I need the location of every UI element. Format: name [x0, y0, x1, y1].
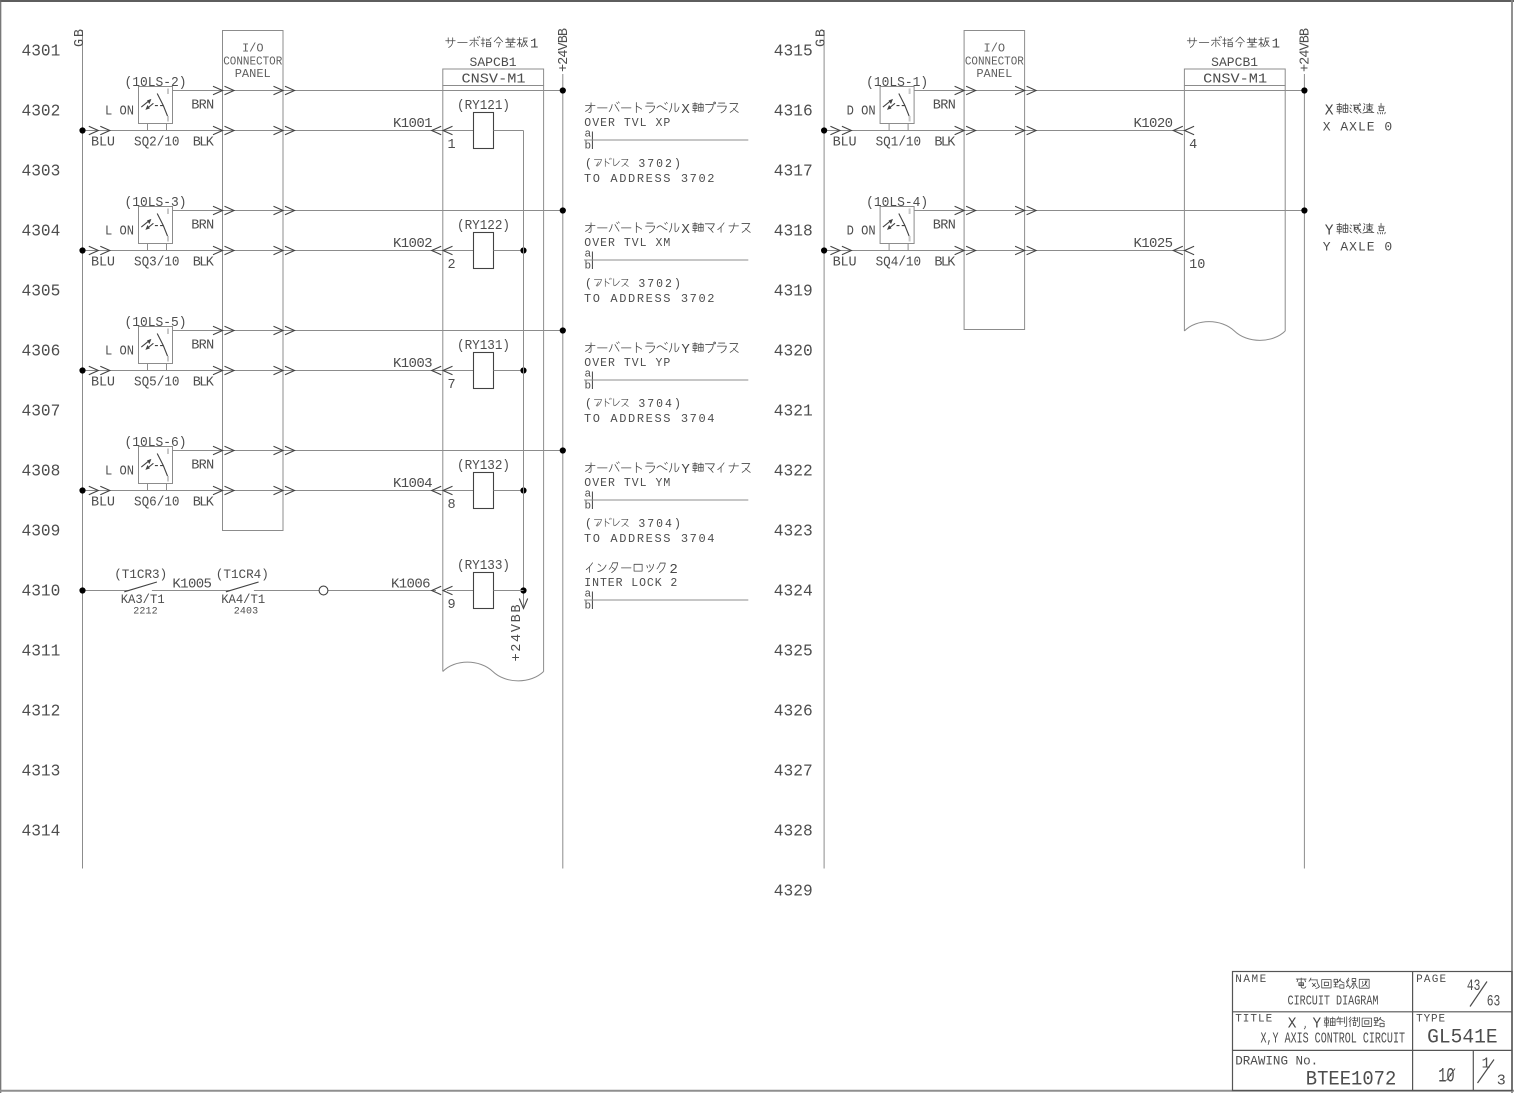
- svg-text:CIRCUIT DIAGRAM: CIRCUIT DIAGRAM: [1288, 994, 1379, 1010]
- label BLK: [193, 376, 215, 391]
- junction node common at RY133: [520, 587, 526, 593]
- line number column 4315-4329: [774, 43, 813, 901]
- label (10LS-3): [125, 196, 187, 211]
- junction node BRN/+24VBB: [560, 207, 566, 213]
- svg-text:BLU: BLU: [91, 136, 115, 151]
- label BRN: [191, 339, 214, 354]
- svg-text:I/O: I/O: [984, 42, 1006, 56]
- svg-text:X AXLE 0: X AXLE 0: [1323, 120, 1393, 135]
- svg-text:BLK: BLK: [193, 136, 215, 151]
- svg-text:): ): [674, 158, 681, 171]
- wire BLK rung 4306: [83, 370, 474, 372]
- label CNSV-M1: [462, 73, 526, 88]
- net label GB: [815, 29, 830, 47]
- wire K1001 label: [393, 116, 433, 132]
- label (RY131): [457, 339, 510, 354]
- svg-text:Y: Y: [1325, 223, 1334, 239]
- svg-text:3: 3: [638, 518, 645, 531]
- pin number 8: [448, 498, 456, 513]
- servo command board SAPCB1 CNSV-M1 box: [1184, 69, 1285, 340]
- svg-text:4315: 4315: [774, 43, 813, 61]
- chevron arrows at panel left edge (BRN): [213, 446, 234, 454]
- junction node BRN/+24VBB (right): [1301, 207, 1307, 213]
- pin number 9: [448, 598, 456, 613]
- svg-text:1: 1: [448, 138, 456, 153]
- svg-text:(10LS-3): (10LS-3): [125, 196, 187, 211]
- label 2212: [133, 607, 158, 618]
- svg-text:4322: 4322: [774, 463, 813, 481]
- chevron arrows at panel right edge (BLK): [274, 126, 295, 134]
- wire BRN row 1 (right): [914, 90, 1304, 92]
- svg-text:X,Y AXIS CONTROL CIRCUIT: X,Y AXIS CONTROL CIRCUIT: [1261, 1032, 1406, 1048]
- label SQ3/10: [134, 256, 180, 271]
- svg-text:CNSV-M1: CNSV-M1: [462, 73, 526, 88]
- svg-text:X: X: [1325, 103, 1334, 119]
- svg-text:a: a: [585, 249, 592, 261]
- svg-text:SQ3/10: SQ3/10: [134, 256, 180, 271]
- svg-text:Y AXLE 0: Y AXLE 0: [1323, 240, 1393, 255]
- chevron arrows at panel left edge (BLK right): [955, 246, 976, 254]
- svg-text:K1001: K1001: [393, 116, 433, 132]
- chevron arrows at panel left edge (BRN): [213, 206, 234, 214]
- label SQ6/10: [134, 496, 180, 511]
- chevron arrows at panel left edge (BRN right): [955, 86, 976, 94]
- wire BRN row 3: [173, 330, 563, 332]
- junction node GB bus rung 4304: [79, 247, 85, 253]
- svg-text:2: 2: [665, 278, 672, 291]
- svg-text:4325: 4325: [774, 643, 813, 661]
- wire BRN row 4: [173, 450, 563, 452]
- svg-text:(RY122): (RY122): [457, 219, 510, 234]
- svg-text:L ON: L ON: [105, 345, 134, 360]
- wire BRN row 2 (right): [914, 210, 1304, 212]
- label BLU: [833, 256, 857, 271]
- svg-text:4321: 4321: [774, 403, 813, 421]
- svg-text:7: 7: [647, 518, 654, 531]
- svg-text:L ON: L ON: [105, 105, 134, 120]
- relay contact T1CR4 (KA4/T1): [226, 582, 259, 592]
- annotation block OVER TVL XP: [584, 102, 748, 186]
- svg-text:a: a: [585, 589, 592, 601]
- wire K1006 label: [391, 577, 431, 593]
- sheet number 10: [1438, 1066, 1455, 1089]
- svg-text:(T1CR4): (T1CR4): [216, 567, 269, 582]
- pin number 4: [1189, 138, 1197, 153]
- label (RY122): [457, 219, 510, 234]
- svg-text:4313: 4313: [22, 763, 61, 781]
- limit switch SQ2/10 (10LS-2): [139, 87, 173, 131]
- +24VBB bus vertical wire: [562, 74, 564, 869]
- label BLU: [833, 136, 857, 151]
- svg-text:+24VBB: +24VBB: [510, 605, 525, 662]
- svg-text:4318: 4318: [774, 223, 813, 241]
- svg-text:GB: GB: [73, 29, 88, 47]
- I/O connector panel box: [964, 31, 1025, 330]
- chevron arrows at panel right edge (BRN right): [1015, 206, 1036, 214]
- label I/O CONNECTOR PANEL: [965, 42, 1024, 82]
- svg-text:0: 0: [656, 158, 663, 171]
- drawing number BTEE1072: [1306, 1069, 1397, 1092]
- limit switch SQ1/10 (10LS-1): [880, 87, 914, 131]
- svg-text:10: 10: [1189, 258, 1205, 273]
- label D ON: [847, 105, 876, 120]
- svg-text:(: (: [585, 158, 592, 171]
- svg-text:b: b: [585, 141, 592, 153]
- +24VBB relay common vertical wire: [523, 131, 525, 609]
- junction node BRN/+24VBB: [560, 447, 566, 453]
- svg-text:9: 9: [448, 598, 456, 613]
- wire coil output to common: [494, 250, 524, 252]
- connector node (open circle) on rung 4310: [319, 586, 328, 595]
- chevron arrows K1001 into board pin 1: [432, 126, 453, 134]
- svg-text:1: 1: [1272, 37, 1280, 53]
- title block: DRAWING No. cell: [1235, 1054, 1318, 1069]
- svg-text:43: 43: [1467, 977, 1481, 995]
- wire rung 4310 (interlock): [83, 590, 474, 592]
- svg-text:2: 2: [448, 258, 456, 273]
- title block: TITLE cell: [1235, 1014, 1272, 1026]
- annotation block OVER TVL YP: [584, 342, 748, 426]
- chevron arrows at panel right edge (BRN right): [1015, 86, 1036, 94]
- svg-text:1: 1: [530, 37, 538, 53]
- svg-text:CNSV-M1: CNSV-M1: [1203, 73, 1267, 88]
- label (RY121): [457, 99, 510, 114]
- svg-text:SAPCB1: SAPCB1: [1211, 55, 1258, 70]
- svg-text:4301: 4301: [22, 43, 61, 61]
- chevron arrows K1020 into board pin 4: [1173, 126, 1194, 134]
- page number 43/63: [1467, 977, 1500, 1011]
- label SQ4/10: [876, 256, 922, 271]
- svg-text:(RY121): (RY121): [457, 99, 510, 114]
- svg-text:TYPE: TYPE: [1416, 1014, 1445, 1026]
- svg-text:(10LS-5): (10LS-5): [125, 316, 187, 331]
- svg-text:KA3/T1: KA3/T1: [121, 592, 165, 607]
- arrow to +24VBB (down): [519, 599, 527, 609]
- relay contact T1CR3 (KA3/T1): [124, 582, 157, 592]
- svg-text:7: 7: [647, 278, 654, 291]
- svg-text:4: 4: [1189, 138, 1197, 153]
- label (10LS-4): [866, 196, 928, 211]
- svg-text:4: 4: [665, 518, 672, 531]
- svg-text:BRN: BRN: [191, 459, 214, 474]
- label KA4/T1: [221, 592, 265, 607]
- svg-text:K1006: K1006: [391, 577, 431, 593]
- label (10LS-2): [125, 76, 187, 91]
- svg-text:4308: 4308: [22, 463, 61, 481]
- svg-text:4327: 4327: [774, 763, 813, 781]
- annotation block INTER LOCK 2: [584, 562, 748, 613]
- svg-text:SAPCB1: SAPCB1: [470, 55, 517, 70]
- label (10LS-1): [866, 76, 928, 91]
- svg-text:BLU: BLU: [91, 496, 115, 511]
- svg-text:b: b: [585, 381, 592, 393]
- chevron arrows K1003 into board pin 7: [432, 366, 453, 374]
- net label +24VBB (bottom): [510, 605, 525, 662]
- limit switch SQ4/10 (10LS-4): [880, 207, 914, 251]
- label servo board (JP): [1187, 36, 1280, 52]
- svg-text:GL541E: GL541E: [1427, 1027, 1498, 1050]
- junction node common line row 4: [520, 487, 526, 493]
- svg-text:4: 4: [665, 398, 672, 411]
- wire BLK rung 4318: [824, 250, 1184, 252]
- svg-text:4328: 4328: [774, 823, 813, 841]
- label (RY132): [457, 459, 510, 474]
- pin number 10: [1189, 258, 1205, 273]
- chevron arrows BLU at GB bus (right): [830, 126, 851, 134]
- label BRN: [933, 99, 956, 114]
- svg-text:DRAWING No.: DRAWING No.: [1235, 1054, 1318, 1069]
- label servo board (JP): [446, 36, 539, 52]
- svg-text:BLK: BLK: [193, 256, 215, 271]
- svg-text:BLU: BLU: [91, 376, 115, 391]
- chevron arrows at panel left edge (BLK): [213, 486, 234, 494]
- svg-text:BRN: BRN: [191, 219, 214, 234]
- junction node BRN/+24VBB: [560, 87, 566, 93]
- svg-text:(10LS-6): (10LS-6): [125, 436, 187, 451]
- line number column 4301-4314: [22, 43, 61, 841]
- svg-text:GB: GB: [815, 29, 830, 47]
- svg-text:X: X: [681, 222, 690, 238]
- net label +24VBB (top): [557, 28, 572, 72]
- svg-text:BLK: BLK: [934, 256, 956, 271]
- svg-text:SQ2/10: SQ2/10: [134, 136, 180, 151]
- svg-text:BRN: BRN: [191, 339, 214, 354]
- annotation block OVER TVL XM: [584, 222, 750, 306]
- relay coil (RY132): [474, 473, 494, 509]
- label BLK: [193, 256, 215, 271]
- chevron arrows at panel left edge (BLK): [213, 126, 234, 134]
- chevron arrows at panel left edge (BRN right): [955, 206, 976, 214]
- label L ON: [105, 345, 134, 360]
- svg-text:K1005: K1005: [172, 577, 212, 593]
- wire K1025 label: [1134, 236, 1174, 252]
- title block: [1233, 972, 1513, 1091]
- type GL541E: [1427, 1027, 1498, 1050]
- svg-text:(RY133): (RY133): [457, 559, 510, 574]
- svg-text:PANEL: PANEL: [235, 67, 271, 81]
- svg-text:b: b: [585, 601, 592, 613]
- svg-text:BRN: BRN: [933, 99, 956, 114]
- svg-text:BLU: BLU: [833, 256, 857, 271]
- svg-text:TO ADDRESS 3702: TO ADDRESS 3702: [584, 172, 715, 186]
- svg-text:K1003: K1003: [393, 356, 433, 372]
- junction node BRN/+24VBB (right): [1301, 87, 1307, 93]
- svg-text:BLK: BLK: [934, 136, 956, 151]
- svg-text:4319: 4319: [774, 283, 813, 301]
- label BRN: [933, 219, 956, 234]
- wire K1005 label: [172, 577, 212, 593]
- label SQ5/10: [134, 376, 180, 391]
- svg-text:L ON: L ON: [105, 465, 134, 480]
- net label +24VBB (top): [1298, 28, 1313, 72]
- svg-text:3: 3: [638, 158, 645, 171]
- annotation X AXLE 0: [1323, 103, 1393, 134]
- label BRN: [191, 99, 214, 114]
- chevron arrows K1025 into board pin 10: [1173, 246, 1194, 254]
- svg-text:Y: Y: [1313, 1017, 1322, 1033]
- wire BRN row 1: [173, 90, 563, 92]
- svg-text:+24VBB: +24VBB: [1298, 28, 1313, 72]
- svg-text:SQ4/10: SQ4/10: [876, 256, 922, 271]
- wire K1002 label: [393, 236, 433, 252]
- svg-text:BLU: BLU: [91, 256, 115, 271]
- junction node GB bus rung 4318: [821, 247, 827, 253]
- annotation Y AXLE 0: [1323, 223, 1393, 254]
- chevron arrows K1006 into board pin 9: [432, 586, 453, 594]
- limit switch SQ5/10 (10LS-5): [139, 327, 173, 371]
- svg-text:7: 7: [647, 158, 654, 171]
- servo command board SAPCB1 CNSV-M1 box: [443, 69, 544, 681]
- relay coil (RY122): [474, 233, 494, 269]
- label L ON: [105, 105, 134, 120]
- svg-text:4302: 4302: [22, 103, 61, 121]
- svg-text:4307: 4307: [22, 403, 61, 421]
- svg-text:(10LS-1): (10LS-1): [866, 76, 928, 91]
- svg-text:4326: 4326: [774, 703, 813, 721]
- svg-text:4323: 4323: [774, 523, 813, 541]
- I/O connector panel box: [223, 31, 284, 531]
- chevron arrows at panel right edge (BLK): [274, 486, 295, 494]
- label 2403: [234, 607, 259, 618]
- svg-text:D ON: D ON: [847, 105, 876, 120]
- wire coil output to common: [494, 370, 524, 372]
- svg-text:(10LS-2): (10LS-2): [125, 76, 187, 91]
- pin number 7: [448, 378, 456, 393]
- chevron arrows K1002 into board pin 2: [432, 246, 453, 254]
- wire K1020 label: [1134, 116, 1174, 132]
- svg-text:8: 8: [448, 498, 456, 513]
- svg-text:3: 3: [1497, 1073, 1506, 1090]
- svg-text:4317: 4317: [774, 163, 813, 181]
- svg-text:4316: 4316: [774, 103, 813, 121]
- title block: TYPE cell: [1416, 1014, 1445, 1026]
- title X,Y AXIS CONTROL CIRCUIT: [1261, 1032, 1406, 1048]
- junction node GB bus rung 4316: [821, 127, 827, 133]
- label SAPCB1: [470, 55, 517, 70]
- svg-text:KA4/T1: KA4/T1: [221, 592, 265, 607]
- junction node BRN/+24VBB: [560, 327, 566, 333]
- chevron arrows BLU at GB bus: [89, 126, 110, 134]
- svg-text:(: (: [585, 518, 592, 531]
- chevron arrows at panel right edge (BRN): [274, 86, 295, 94]
- label L ON: [105, 225, 134, 240]
- svg-text:SQ6/10: SQ6/10: [134, 496, 180, 511]
- label BLU: [91, 256, 115, 271]
- svg-text:SQ5/10: SQ5/10: [134, 376, 180, 391]
- svg-text:INTER LOCK 2: INTER LOCK 2: [584, 577, 677, 590]
- svg-text:2403: 2403: [234, 607, 259, 618]
- label (RY133): [457, 559, 510, 574]
- svg-text:10: 10: [1438, 1066, 1455, 1089]
- svg-text:(: (: [585, 278, 592, 291]
- svg-text:X: X: [681, 102, 690, 118]
- chevron arrows at panel right edge (BRN): [274, 446, 295, 454]
- label CNSV-M1: [1203, 73, 1267, 88]
- title block: NAME cell: [1235, 974, 1266, 986]
- label KA3/T1: [121, 592, 165, 607]
- page border frame: [0, 0, 1514, 2]
- limit switch SQ3/10 (10LS-3): [139, 207, 173, 251]
- pin number 2: [448, 258, 456, 273]
- label BRN: [191, 459, 214, 474]
- chevron arrows at panel right edge (BRN): [274, 206, 295, 214]
- svg-text:4303: 4303: [22, 163, 61, 181]
- svg-text:b: b: [585, 501, 592, 513]
- wire coil output to common: [494, 490, 524, 492]
- label (T1CR4): [216, 567, 269, 582]
- title CIRCUIT DIAGRAM: [1288, 994, 1379, 1010]
- label (T1CR3): [114, 567, 167, 582]
- svg-text:4311: 4311: [22, 643, 61, 661]
- svg-text:OVER TVL XP: OVER TVL XP: [584, 117, 670, 130]
- svg-text:4320: 4320: [774, 343, 813, 361]
- svg-text:3: 3: [638, 278, 645, 291]
- svg-text:4305: 4305: [22, 283, 61, 301]
- label BRN: [191, 219, 214, 234]
- label BLK: [934, 136, 956, 151]
- svg-text:4314: 4314: [22, 823, 61, 841]
- svg-text:7: 7: [647, 398, 654, 411]
- label BLK: [934, 256, 956, 271]
- svg-text:TO ADDRESS 3704: TO ADDRESS 3704: [584, 412, 715, 426]
- svg-text:K1020: K1020: [1134, 116, 1174, 132]
- relay coil (RY131): [474, 353, 494, 389]
- net label GB: [73, 29, 88, 47]
- svg-text:4324: 4324: [774, 583, 813, 601]
- label (10LS-5): [125, 316, 187, 331]
- label (10LS-6): [125, 436, 187, 451]
- chevron arrows at panel left edge (BLK): [213, 366, 234, 374]
- svg-text:a: a: [585, 369, 592, 381]
- svg-text:SQ1/10: SQ1/10: [876, 136, 922, 151]
- label SAPCB1: [1211, 55, 1258, 70]
- label D ON: [847, 225, 876, 240]
- svg-text:BRN: BRN: [191, 99, 214, 114]
- relay coil (RY121): [474, 113, 494, 149]
- svg-text:(RY131): (RY131): [457, 339, 510, 354]
- label BLK: [193, 136, 215, 151]
- label L ON: [105, 465, 134, 480]
- wire BLK rung 4304: [83, 250, 474, 252]
- relay coil (RY133): [474, 573, 494, 609]
- sheet 1/3: [1478, 1056, 1506, 1090]
- svg-text:0: 0: [656, 278, 663, 291]
- wire coil output to common: [494, 130, 524, 132]
- wire BLK rung 4302: [83, 130, 474, 132]
- svg-text:OVER TVL YP: OVER TVL YP: [584, 357, 670, 370]
- svg-text:2212: 2212: [133, 607, 158, 618]
- svg-text:): ): [674, 518, 681, 531]
- svg-text:I/O: I/O: [242, 42, 264, 56]
- title block: PAGE cell: [1416, 974, 1446, 986]
- wire BLK rung 4308: [83, 490, 474, 492]
- junction node GB bus rung 4306: [79, 367, 85, 373]
- junction node common line row 2: [520, 247, 526, 253]
- svg-text:(T1CR3): (T1CR3): [114, 567, 167, 582]
- svg-text:BLK: BLK: [193, 376, 215, 391]
- chevron arrows BLU at GB bus: [89, 246, 110, 254]
- svg-text:K1025: K1025: [1134, 236, 1174, 252]
- chevron arrows BLU at GB bus: [89, 486, 110, 494]
- label SQ2/10: [134, 136, 180, 151]
- svg-text:TO ADDRESS 3704: TO ADDRESS 3704: [584, 532, 715, 546]
- chevron arrows at panel right edge (BLK right): [1015, 246, 1036, 254]
- chevron arrows at panel left edge (BLK right): [955, 126, 976, 134]
- svg-text:Y: Y: [681, 462, 690, 478]
- label BLK: [193, 496, 215, 511]
- chevron arrows at panel left edge (BRN): [213, 326, 234, 334]
- svg-text:NAME: NAME: [1235, 974, 1266, 986]
